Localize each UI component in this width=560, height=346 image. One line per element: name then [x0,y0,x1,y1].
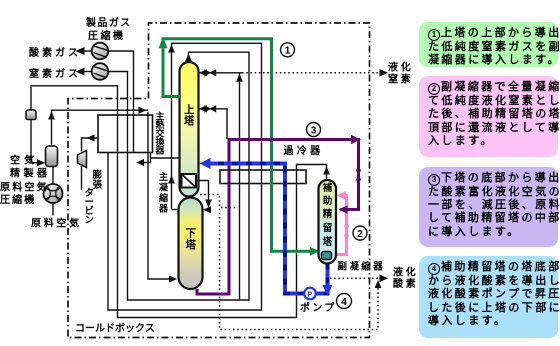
wire: product N2 line from upper column top [108,52,249,300]
note box 2 (pink) step 2 [419,76,558,157]
svg-text:1: 1 [285,46,291,57]
svg-text:コールドボックス: コールドボックス [75,322,155,335]
svg-text:塔: 塔 [184,114,195,127]
circled number 3 [307,123,321,137]
svg-text:窒素ガス: 窒素ガス [29,67,81,80]
svg-text:圧縮機: 圧縮機 [0,193,36,206]
svg-text:酸素: 酸素 [393,277,419,290]
svg-text:助: 助 [323,195,333,207]
arrow up below N2 corner [185,54,192,62]
main heat exchanger box [98,115,153,153]
circled number 4 [337,294,352,309]
svg-text:副凝縮器: 副凝縮器 [338,261,386,273]
product gas compressor 1 (O2) [92,43,109,60]
arrow down on condenser downcomer [205,200,212,208]
arrow right LOX out [380,275,389,283]
arrow right liquid N2 out [380,69,389,77]
arrow left on that line [136,159,144,166]
wire: purge/regeneration line (aux column top to purifier) [31,86,327,318]
raw air compressor 原料空気圧縮機 [52,167,54,216]
circled number 1 [281,43,295,57]
blue dash overlay [210,164,328,294]
arrow up on dotted LOX riser [375,280,382,288]
lower column 下塔 [179,198,203,290]
wire: O2 product out [78,50,92,52]
wire: rich liquid line with valve into upper column (y=108.8) [200,109,228,139]
arrow left into column top [199,69,207,76]
blue arrow down into pump junction [323,285,333,296]
purple arrow left into aux column [339,205,348,213]
arrow up on purifier outlet [48,112,55,120]
wire: turbine outlet [81,166,83,190]
svg-text:器: 器 [155,146,166,156]
svg-text:塔: 塔 [186,238,197,251]
wire: reflux line with valve into upper column (y=72.8) [200,72,243,74]
purple rich liquid path (lower column bottom to aux column mid) [197,140,359,295]
purple valve [356,170,362,181]
wire: into lower column top right [205,209,211,211]
wire: riser to reflux junction [239,73,241,300]
arrow left into lower column [203,206,211,213]
svg-text:窒素: 窒素 [388,73,414,86]
regeneration heater square [26,110,36,120]
wire: O2 compressor line down into exchanger [108,51,133,153]
pump circle [304,288,316,300]
cold box boundary (dash-dot) [68,23,370,338]
wire: turbine feed from exchanger [82,138,99,152]
arrow up on riser [236,74,243,82]
wire: main condenser outlet to lower column [172,209,179,211]
wire: square down to purifier inlet [31,120,43,163]
arrow right into purifier [37,159,45,166]
arrow right into lower column [169,275,177,282]
pink valve [344,226,350,237]
svg-text:補: 補 [322,182,333,194]
main condenser 主凝縮器 (square with diagonal) [182,174,197,188]
svg-text:製品ガス: 製品ガス [85,16,132,29]
svg-text:酸素ガス: 酸素ガス [29,46,81,59]
dotted stub right of condenser [221,207,238,209]
svg-text:液化: 液化 [388,61,414,74]
purple arrow down after corner [351,135,361,144]
arrow up on aux column top line [323,167,330,175]
svg-text:過冷器: 過冷器 [283,144,324,157]
svg-text:精: 精 [323,208,333,220]
green arrow up at top corner [159,37,168,48]
wire: raw air feed (purifier to main exchanger to lower column) [52,110,176,279]
wire: product O2 line top (main condenser loop to compressor line) [108,43,262,310]
green arrow into aux column [310,247,320,256]
svg-text:精製器: 精製器 [10,167,51,180]
svg-text:器: 器 [158,204,169,214]
auxiliary column 補助精留塔 [319,180,337,264]
wire: condenser right side down to lower column [196,181,209,206]
svg-text:2: 2 [357,229,363,240]
dotted line: lower column level link [200,195,378,330]
wire: line into upper column lower left [137,153,180,163]
valve V2 on rich liquid line [205,106,216,112]
product gas compressor 2 (N2) [92,63,109,80]
arrow left into column mid [199,105,207,112]
arrow up on O2 riser lower [168,176,175,184]
note box 3 (purple) step 3 [419,167,558,248]
svg-text:圧縮機: 圧縮機 [88,29,126,42]
air purifier vessel 空気精製器 [46,146,58,167]
svg-text:ン: ン [85,215,95,226]
pink reflux path (sub condenser to aux column top) [332,196,347,255]
svg-text:空気: 空気 [10,154,38,167]
svg-text:原料空気: 原料空気 [31,217,82,230]
wire: N2 product out [78,71,92,73]
svg-text:液化: 液化 [393,266,419,279]
svg-text:P: P [308,292,313,299]
blue LOX pump path (aux column bottom to upper column) [316,264,328,294]
expansion turbine [78,151,87,168]
sub condenser 副凝縮器 (teal box) [322,252,332,260]
arrow up on O2 riser [168,45,175,53]
arrow right on air feed top [139,107,147,114]
upper column 上塔 [180,62,199,197]
note box 1 (green) step 1 [419,22,558,67]
note box 4 (cyan) step 4 [419,256,558,338]
svg-text:ポンプ: ポンプ [300,301,337,314]
arrow left on turbine feed [87,134,95,141]
pink arrow into aux column top [337,191,346,199]
circled number 2 [353,226,367,240]
svg-text:留: 留 [323,222,333,234]
dotted liquid O2 line out [330,277,381,279]
svg-text:3: 3 [311,125,317,136]
blue arrow into upper column [200,158,211,169]
subcooler box 過冷器 [220,170,306,184]
svg-text:下: 下 [186,228,197,240]
svg-text:凝: 凝 [159,182,169,193]
green low purity N2 path (upper column to sub condenser) [163,39,315,252]
svg-text:塔: 塔 [323,236,333,248]
valve V1 on reflux line [205,70,216,76]
svg-text:原料空気: 原料空気 [0,181,49,194]
svg-text:4: 4 [341,297,347,308]
svg-text:主: 主 [159,171,168,182]
svg-text:縮: 縮 [159,192,168,203]
dotted liquid N2 line to cold box edge [242,72,381,74]
